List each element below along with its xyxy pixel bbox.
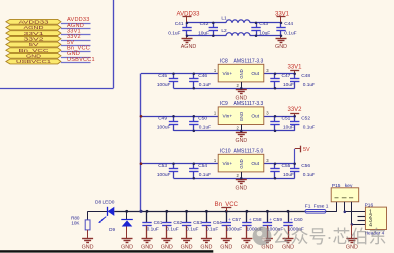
pins P15 — [344, 202, 346, 212]
svg-text:10uF: 10uF — [283, 125, 294, 131]
wire input rail vertical — [140, 74, 142, 212]
capacitor C61 — [146, 211, 148, 222]
capacitor C53 — [173, 164, 175, 169]
svg-text:C48: C48 — [301, 73, 310, 79]
svg-text:+: + — [228, 218, 231, 223]
wire ground rail IC9 — [174, 130, 295, 132]
wire ground rail IC8 — [174, 88, 295, 90]
junction D9 / rail on bus — [125, 210, 128, 213]
capacitor C64 — [206, 211, 208, 222]
wire net 33V1 — [61, 34, 91, 36]
junction dots IC9 — [172, 115, 175, 118]
svg-text:33V1: 33V1 — [24, 31, 45, 37]
wire bus — [114, 211, 305, 213]
capacitor C56 — [294, 164, 296, 169]
svg-text:C53: C53 — [158, 163, 167, 169]
capacitor C49 — [173, 116, 175, 121]
ground P15 pin3 — [351, 224, 353, 238]
capacitor C45 — [173, 74, 175, 79]
svg-text:0.1uF: 0.1uF — [303, 82, 315, 88]
sheet entry 33V1 — [6, 31, 61, 36]
svg-text:C50: C50 — [198, 116, 207, 122]
svg-text:IC10: IC10 — [220, 149, 231, 155]
watermark logo circle — [253, 227, 272, 246]
svg-text:C63: C63 — [193, 220, 202, 226]
svg-text:Out: Out — [251, 71, 259, 77]
svg-text:C44: C44 — [284, 21, 293, 27]
svg-text:USBVCC1: USBVCC1 — [67, 57, 95, 63]
ground C57 — [221, 239, 232, 243]
svg-text:USBVCC1: USBVCC1 — [16, 59, 51, 65]
svg-text:D9: D9 — [109, 227, 115, 232]
svg-text:Out: Out — [251, 161, 259, 167]
svg-text:IC9: IC9 — [220, 101, 228, 107]
svg-text:GND: GND — [236, 138, 248, 144]
svg-text:AMS1117-3.3: AMS1117-3.3 — [234, 101, 264, 107]
ground AGND — [186, 36, 188, 39]
svg-text:0.1uF: 0.1uF — [206, 226, 218, 232]
wire net USBVCC1 — [61, 62, 91, 64]
svg-text:100uF: 100uF — [157, 125, 171, 131]
svg-text:0.1uF: 0.1uF — [199, 125, 211, 131]
ground C61 — [142, 239, 153, 243]
resistor R80 — [87, 211, 89, 220]
power port 5V — [294, 149, 296, 164]
wire — [250, 22, 281, 24]
svg-text:Vin+: Vin+ — [222, 71, 232, 77]
sheet entry AVDD33 — [6, 19, 61, 24]
svg-text:GND: GND — [275, 44, 287, 50]
wire net AVDD33 — [61, 23, 91, 25]
svg-text:10uF: 10uF — [198, 31, 209, 37]
wire P15 to P16 pin1 — [345, 211, 366, 213]
svg-text:GND: GND — [82, 245, 94, 251]
wire — [88, 211, 108, 213]
capacitor C54 — [193, 164, 195, 169]
capacitor C59 (polarized) — [267, 211, 269, 222]
sheet entry Bn_VCC — [6, 48, 61, 53]
svg-text:IC8: IC8 — [220, 59, 228, 65]
svg-text:GND: GND — [220, 245, 232, 251]
svg-text:100uF: 100uF — [157, 82, 171, 88]
svg-text:0.1uF: 0.1uF — [168, 31, 180, 37]
ground C64 — [201, 239, 212, 243]
junction dots filter — [186, 22, 189, 25]
svg-text:GND: GND — [181, 245, 193, 251]
svg-text:C46: C46 — [198, 73, 207, 79]
capacitor C57 (polarized) — [226, 211, 228, 222]
ground C58 — [241, 239, 252, 243]
svg-text:1000uF: 1000uF — [226, 226, 242, 232]
junction dots IC8 — [172, 72, 175, 75]
svg-text:0.1uF: 0.1uF — [166, 226, 178, 232]
wire P15 to P16 pin4 — [352, 224, 366, 226]
wire net GND — [61, 57, 91, 59]
stub P16 pin2 — [358, 216, 366, 218]
svg-text:0.1uF: 0.1uF — [199, 172, 211, 178]
svg-text:公众号·芯伯东: 公众号·芯伯东 — [273, 227, 387, 247]
capacitor C48 — [294, 74, 296, 79]
svg-text:C52: C52 — [301, 116, 310, 122]
capacitor C44 — [280, 23, 282, 28]
sheet entry 5V — [6, 42, 61, 47]
svg-text:C42: C42 — [200, 21, 209, 27]
svg-text:10K: 10K — [71, 220, 80, 225]
svg-text:GND: GND — [121, 245, 133, 251]
capacitor C63 — [186, 211, 188, 222]
svg-text:5V: 5V — [303, 147, 310, 153]
junction dots IC10 — [172, 162, 175, 165]
svg-text:F1: F1 — [305, 203, 311, 209]
ground C59 — [262, 239, 273, 243]
ground D9 — [126, 227, 128, 239]
svg-text:Vin+: Vin+ — [222, 161, 232, 167]
svg-text:AGND: AGND — [181, 44, 197, 50]
svg-text:AMS1117-3.3: AMS1117-3.3 — [234, 59, 264, 65]
svg-text:C56: C56 — [301, 163, 310, 169]
svg-text:Bn_VCC: Bn_VCC — [19, 48, 50, 54]
svg-text:33V2: 33V2 — [287, 107, 302, 113]
wire net Bn_VCC — [61, 51, 91, 53]
stub P16 pin3 — [358, 220, 366, 222]
svg-text:GND: GND — [141, 245, 153, 251]
capacitor C62 — [166, 211, 168, 222]
svg-text:AMS1117-5.0: AMS1117-5.0 — [234, 149, 264, 155]
svg-text:0.1uF: 0.1uF — [303, 172, 315, 178]
wire input IC9 — [141, 116, 218, 118]
svg-text:C61: C61 — [154, 220, 163, 226]
capacitor C55 — [274, 164, 276, 169]
wire fuse to P15 — [326, 211, 337, 213]
ground IC9 — [241, 131, 243, 132]
capacitor C41 — [186, 23, 188, 28]
wire input IC8 — [141, 73, 218, 75]
svg-text:Vin+: Vin+ — [222, 113, 232, 119]
svg-text:GND: GND — [200, 245, 212, 251]
svg-text:10uF: 10uF — [283, 172, 294, 178]
svg-text:GND: GND — [26, 54, 42, 60]
wire horizontal to left edge — [0, 88, 114, 90]
svg-text:AVDD33: AVDD33 — [19, 20, 50, 26]
svg-text:GND: GND — [161, 245, 173, 251]
wire — [250, 35, 281, 37]
wire output IC8 — [264, 73, 295, 75]
wire output IC9 — [264, 116, 295, 118]
svg-text:C45: C45 — [158, 73, 167, 79]
svg-text:C41: C41 — [175, 21, 184, 27]
sheet entry 33V2 — [6, 36, 61, 41]
svg-text:5V: 5V — [29, 42, 40, 48]
svg-text:D8 LED0: D8 LED0 — [95, 199, 115, 205]
capacitor C43 — [256, 23, 258, 28]
svg-text:C60: C60 — [294, 217, 303, 223]
sheet entry AGND — [6, 25, 61, 30]
wire input IC10 — [141, 163, 218, 165]
svg-text:+: + — [249, 218, 252, 223]
junction rail IC9 — [140, 115, 143, 118]
ground C60 — [283, 239, 294, 243]
ground C63 — [181, 239, 192, 243]
svg-text:C57: C57 — [232, 217, 241, 223]
svg-text:GND: GND — [239, 112, 244, 121]
regulator IC10 AMS1117-5.0 — [218, 154, 264, 172]
capacitor C60 (polarized) — [288, 211, 290, 222]
svg-text:GND: GND — [241, 245, 253, 251]
wire net 33V2 — [61, 40, 91, 42]
svg-text:C58: C58 — [253, 217, 262, 223]
capacitor C51 — [274, 116, 276, 121]
svg-text:C54: C54 — [198, 163, 207, 169]
black border bar bottom — [0, 250, 213, 252]
sheet entry USBVCC1 — [6, 59, 61, 64]
ground IC10 — [241, 178, 243, 179]
wire vertical from top edge — [113, 0, 115, 88]
svg-text:100uF: 100uF — [157, 172, 171, 178]
svg-text:+: + — [269, 218, 272, 223]
capacitor C47 — [274, 74, 276, 79]
ground IC8 — [241, 88, 243, 89]
sheet entry GND — [6, 53, 61, 58]
wire — [187, 22, 226, 24]
svg-text:10uF: 10uF — [283, 82, 294, 88]
svg-text:0.1uF: 0.1uF — [303, 125, 315, 131]
wire output IC10 — [264, 163, 295, 165]
svg-text:C47: C47 — [282, 73, 291, 79]
svg-text:C59: C59 — [273, 217, 282, 223]
junction rail IC10 — [140, 162, 143, 165]
wire net 5V — [61, 45, 91, 47]
svg-text:33V2: 33V2 — [24, 37, 45, 43]
svg-text:+: + — [290, 218, 293, 223]
capacitor C52 — [294, 116, 296, 121]
wire net AGND — [61, 28, 91, 30]
svg-text:33V1: 33V1 — [287, 64, 302, 70]
capacitor C42 — [213, 23, 215, 28]
svg-text:0.1uF: 0.1uF — [147, 226, 159, 232]
svg-text:C62: C62 — [173, 220, 182, 226]
regulator IC9 AMS1117-3.3 — [218, 107, 264, 125]
svg-text:0.1uF: 0.1uF — [186, 226, 198, 232]
wire — [187, 35, 226, 37]
svg-text:C51: C51 — [282, 116, 291, 122]
svg-text:0.1uF: 0.1uF — [284, 31, 296, 37]
svg-text:GND: GND — [236, 186, 248, 192]
ground GND (filter) — [280, 36, 282, 39]
svg-text:0.1uF: 0.1uF — [199, 82, 211, 88]
ground C62 — [161, 239, 172, 243]
capacitor C50 — [193, 116, 195, 121]
svg-text:10uF: 10uF — [259, 31, 270, 37]
svg-text:GND: GND — [239, 159, 244, 168]
wire ground rail IC10 — [174, 178, 295, 180]
svg-text:Fuse 1: Fuse 1 — [314, 203, 329, 209]
svg-text:C49: C49 — [158, 116, 167, 122]
svg-text:GND: GND — [239, 69, 244, 78]
capacitor C46 — [193, 74, 195, 79]
svg-text:Out: Out — [251, 113, 259, 119]
svg-text:C55: C55 — [282, 163, 291, 169]
svg-text:C43: C43 — [259, 21, 268, 27]
svg-text:C64: C64 — [213, 220, 222, 226]
capacitor C58 (polarized) — [246, 211, 248, 222]
ground R80 — [87, 230, 89, 239]
regulator IC8 AMS1117-3.3 — [218, 64, 264, 82]
